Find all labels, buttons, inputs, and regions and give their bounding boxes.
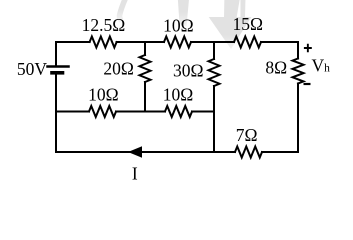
polarity plus sign [304, 44, 312, 52]
battery V1 50V positive plate [48, 65, 69, 68]
resistor R5 10ohm second row right [165, 106, 192, 117]
wire top rail segment between R2 and R3 [191, 41, 234, 43]
svg-text:10Ω: 10Ω [163, 16, 194, 36]
svg-text:10Ω: 10Ω [163, 85, 194, 105]
wire top rail segment between R1 and R2 [117, 41, 164, 43]
resistor R3 15ohm [234, 37, 261, 48]
svg-text:I: I [132, 163, 138, 183]
polarity minus sign [304, 83, 311, 85]
svg-text:30Ω: 30Ω [173, 61, 204, 81]
svg-text:8Ω: 8Ω [265, 58, 287, 78]
wire 20ohm branch lower [144, 82, 146, 112]
wire 20ohm branch upper [144, 42, 146, 55]
wire right branch upper [297, 42, 299, 59]
resistor R8 8ohm vertical [293, 59, 304, 84]
wire left branch lower [55, 75, 57, 152]
wire second rail middle segment [116, 111, 165, 113]
resistor R6 20ohm vertical [140, 55, 151, 82]
resistor R9 7ohm [235, 147, 262, 158]
wire bottom rail left segment [56, 151, 235, 153]
wire left branch upper [55, 42, 57, 65]
svg-text:50V: 50V [17, 59, 48, 79]
wire 30ohm branch upper [213, 42, 215, 59]
wire top rail right segment [261, 41, 298, 43]
wire bottom rail right segment [262, 151, 298, 153]
svg-text:7Ω: 7Ω [236, 125, 258, 145]
battery V1 50V negative plate [52, 71, 63, 75]
wire top rail left segment [56, 41, 90, 43]
wire second rail left segment [56, 111, 89, 113]
resistor R7 30ohm vertical [209, 59, 220, 86]
resistor R4 10ohm second row left [89, 106, 116, 117]
svg-text:12.5Ω: 12.5Ω [82, 15, 126, 35]
resistor R1 12.5ohm [90, 37, 117, 48]
resistor R2 10ohm top [164, 37, 191, 48]
wire second rail right segment [192, 111, 214, 113]
svg-text:20Ω: 20Ω [103, 59, 134, 79]
svg-text:15Ω: 15Ω [232, 14, 263, 34]
wire 30ohm branch lower [213, 86, 215, 152]
wire right branch lower [297, 84, 299, 153]
svg-text:10Ω: 10Ω [88, 85, 119, 105]
current direction arrowhead [128, 146, 142, 158]
